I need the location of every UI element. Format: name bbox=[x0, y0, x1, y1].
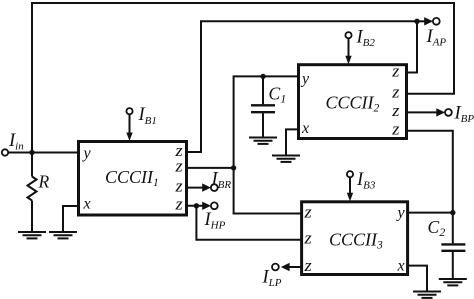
svg-text:z: z bbox=[391, 101, 400, 120]
svg-text:Iin: Iin bbox=[8, 131, 24, 153]
svg-text:y: y bbox=[396, 205, 406, 222]
svg-text:IBR: IBR bbox=[211, 170, 232, 192]
svg-text:z: z bbox=[391, 83, 400, 102]
svg-text:CCCII2: CCCII2 bbox=[326, 93, 380, 115]
svg-text:CCCII3: CCCII3 bbox=[329, 230, 383, 252]
svg-text:IBP: IBP bbox=[454, 104, 474, 126]
svg-text:CCCII1: CCCII1 bbox=[105, 167, 159, 189]
svg-text:IB1: IB1 bbox=[138, 105, 157, 127]
svg-text:y: y bbox=[82, 145, 92, 162]
svg-text:z: z bbox=[174, 176, 183, 195]
svg-text:x: x bbox=[83, 196, 91, 213]
svg-text:IHP: IHP bbox=[204, 210, 226, 232]
svg-text:z: z bbox=[303, 256, 312, 275]
svg-text:C2: C2 bbox=[428, 217, 446, 239]
svg-text:x: x bbox=[301, 120, 309, 137]
svg-text:IAP: IAP bbox=[426, 27, 447, 49]
svg-text:IB2: IB2 bbox=[356, 27, 376, 49]
svg-text:z: z bbox=[174, 195, 183, 214]
svg-text:z: z bbox=[391, 120, 400, 139]
svg-text:z: z bbox=[303, 229, 312, 248]
svg-text:z: z bbox=[391, 61, 400, 80]
svg-text:z: z bbox=[303, 202, 312, 221]
svg-text:C1: C1 bbox=[269, 84, 287, 106]
svg-text:R: R bbox=[38, 172, 50, 192]
svg-text:IB3: IB3 bbox=[356, 170, 376, 192]
svg-text:ILP: ILP bbox=[262, 268, 282, 290]
svg-text:x: x bbox=[397, 258, 405, 275]
svg-text:z: z bbox=[174, 157, 183, 176]
svg-text:y: y bbox=[300, 71, 310, 88]
